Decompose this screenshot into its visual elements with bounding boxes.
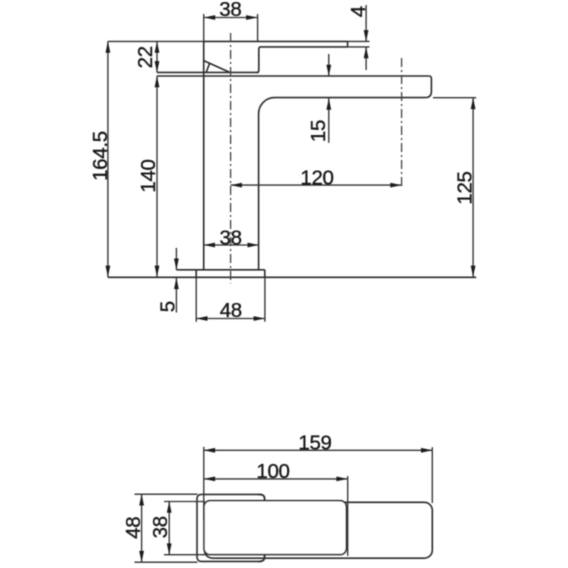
svg-text:125: 125 [454,171,477,204]
svg-text:38: 38 [149,516,172,538]
svg-text:15: 15 [307,120,330,142]
svg-text:159: 159 [298,431,331,454]
svg-text:100: 100 [256,460,289,483]
svg-text:140: 140 [137,159,160,192]
svg-text:4: 4 [347,6,370,17]
svg-text:164.5: 164.5 [89,131,112,181]
svg-text:48: 48 [220,299,242,322]
svg-text:120: 120 [300,166,333,189]
svg-text:38: 38 [219,226,241,249]
svg-text:22: 22 [134,46,157,68]
svg-text:38: 38 [219,0,241,21]
svg-text:48: 48 [122,517,145,539]
svg-text:5: 5 [157,301,180,312]
